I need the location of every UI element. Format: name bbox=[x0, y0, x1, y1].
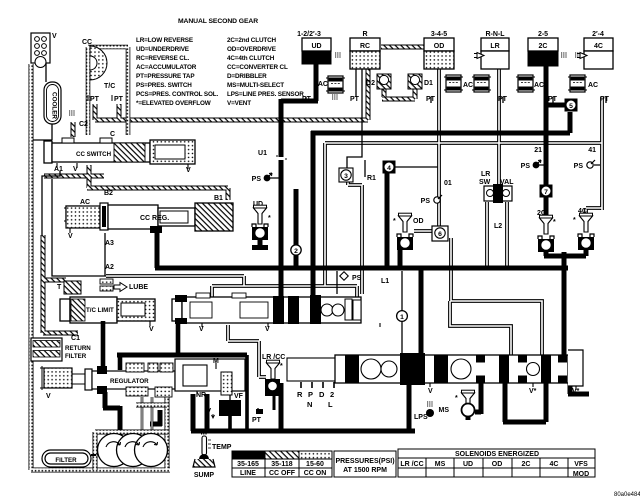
svg-text:*: * bbox=[268, 215, 271, 222]
svg-text:LPS=LINE PRES. SENSOR: LPS=LINE PRES. SENSOR bbox=[227, 91, 304, 98]
svg-text:PRESSURES(PSI): PRESSURES(PSI) bbox=[335, 458, 394, 465]
svg-text:*=ELEVATED OVERFLOW: *=ELEVATED OVERFLOW bbox=[136, 100, 211, 107]
svg-text:4C: 4C bbox=[594, 43, 603, 50]
svg-text:*: * bbox=[553, 219, 556, 226]
svg-text:2: 2 bbox=[294, 248, 298, 255]
svg-text:AC: AC bbox=[463, 82, 473, 89]
svg-text:R: R bbox=[297, 390, 303, 399]
svg-text:UD: UD bbox=[311, 43, 321, 50]
svg-text:VF: VF bbox=[234, 393, 244, 400]
svg-text:V: V bbox=[68, 233, 73, 240]
svg-text:FILTER: FILTER bbox=[55, 457, 77, 464]
svg-text:RETURN: RETURN bbox=[65, 345, 91, 352]
svg-text:VFS: VFS bbox=[574, 461, 588, 468]
svg-text:B2: B2 bbox=[104, 190, 113, 197]
svg-text:D: D bbox=[319, 390, 325, 399]
svg-text:V: V bbox=[149, 326, 154, 333]
svg-text:01: 01 bbox=[444, 180, 452, 187]
svg-text:*: * bbox=[455, 395, 458, 402]
svg-text:CC ON: CC ON bbox=[304, 470, 327, 477]
svg-text:V: V bbox=[52, 33, 57, 40]
svg-text:FILTER: FILTER bbox=[65, 353, 87, 360]
svg-text:CC REG.: CC REG. bbox=[140, 215, 169, 222]
svg-text:L1: L1 bbox=[381, 278, 389, 285]
svg-text:D1: D1 bbox=[424, 80, 433, 87]
svg-text:AC: AC bbox=[318, 81, 328, 88]
svg-text:C2: C2 bbox=[79, 121, 88, 128]
svg-text:V=VENT: V=VENT bbox=[227, 100, 251, 107]
svg-text:SUMP: SUMP bbox=[194, 472, 215, 479]
svg-text:PS: PS bbox=[352, 275, 362, 282]
svg-text:*: * bbox=[280, 363, 283, 370]
svg-text:UD: UD bbox=[463, 461, 473, 468]
svg-text:LINE: LINE bbox=[240, 470, 256, 477]
svg-text:MS: MS bbox=[439, 407, 450, 414]
svg-text:OD: OD bbox=[492, 461, 503, 468]
svg-text:AC: AC bbox=[80, 199, 90, 206]
svg-text:UD=UNDERDRIVE: UD=UNDERDRIVE bbox=[136, 46, 189, 53]
svg-text:N: N bbox=[307, 400, 312, 409]
svg-text:PT: PT bbox=[90, 96, 100, 103]
svg-text:CC OFF: CC OFF bbox=[269, 470, 296, 477]
svg-text:V: V bbox=[186, 167, 191, 174]
svg-text:1: 1 bbox=[400, 314, 404, 321]
svg-text:AC=ACCUMULATOR: AC=ACCUMULATOR bbox=[136, 64, 197, 71]
svg-text:LR /CC: LR /CC bbox=[400, 461, 423, 468]
svg-text:T: T bbox=[57, 284, 62, 291]
svg-text:*: * bbox=[573, 217, 576, 224]
svg-text:PS=PRES. SWITCH: PS=PRES. SWITCH bbox=[136, 82, 192, 89]
svg-text:2C: 2C bbox=[539, 43, 548, 50]
svg-text:L: L bbox=[328, 400, 333, 409]
svg-text:80a0e484: 80a0e484 bbox=[614, 492, 640, 498]
svg-text:PT: PT bbox=[350, 96, 360, 103]
svg-text:PS: PS bbox=[521, 163, 531, 170]
svg-text:2C: 2C bbox=[522, 461, 531, 468]
svg-text:T/C: T/C bbox=[104, 83, 115, 90]
svg-text:A3: A3 bbox=[105, 240, 114, 247]
svg-text:AC: AC bbox=[534, 82, 544, 89]
svg-text:PS: PS bbox=[574, 163, 584, 170]
svg-text:C1: C1 bbox=[71, 335, 80, 342]
svg-text:3: 3 bbox=[344, 173, 348, 180]
svg-text:2: 2 bbox=[330, 390, 334, 399]
svg-text:A2: A2 bbox=[105, 264, 114, 271]
svg-text:4C=4th CLUTCH: 4C=4th CLUTCH bbox=[227, 55, 275, 62]
svg-text:3-4-5: 3-4-5 bbox=[431, 31, 447, 38]
svg-text:PT=PRESSURE TAP: PT=PRESSURE TAP bbox=[136, 73, 195, 80]
svg-text:B1: B1 bbox=[214, 195, 223, 202]
svg-text:V: V bbox=[428, 388, 433, 395]
svg-text:R1: R1 bbox=[367, 175, 376, 182]
svg-text:LR: LR bbox=[490, 43, 499, 50]
svg-text:OD=OVERDRIVE: OD=OVERDRIVE bbox=[227, 46, 276, 53]
svg-text:V: V bbox=[206, 408, 211, 415]
svg-text:TEMP: TEMP bbox=[212, 444, 232, 451]
svg-text:PCS: PCS bbox=[223, 406, 237, 413]
svg-text:CC: CC bbox=[82, 39, 92, 46]
svg-text:RC=REVERSE CL.: RC=REVERSE CL. bbox=[136, 55, 189, 62]
svg-text:SOLENOIDS ENERGIZED: SOLENOIDS ENERGIZED bbox=[455, 451, 539, 458]
svg-text:D=DRIBBLER: D=DRIBBLER bbox=[227, 73, 267, 80]
svg-text:15-60: 15-60 bbox=[306, 461, 324, 468]
svg-text:SW: SW bbox=[479, 179, 491, 186]
svg-text:R: R bbox=[362, 31, 367, 38]
svg-text:T/C LIMIT: T/C LIMIT bbox=[86, 307, 114, 314]
svg-text:PT: PT bbox=[548, 96, 558, 103]
svg-text:PT: PT bbox=[426, 96, 436, 103]
svg-text:4C: 4C bbox=[550, 461, 559, 468]
svg-text:AT 1500 RPM: AT 1500 RPM bbox=[343, 467, 387, 474]
svg-text:MS=MULTI-SELECT: MS=MULTI-SELECT bbox=[227, 82, 284, 89]
svg-text:21: 21 bbox=[534, 147, 542, 154]
svg-text:PT: PT bbox=[114, 96, 124, 103]
svg-text:LUBE: LUBE bbox=[129, 284, 148, 291]
svg-text:7: 7 bbox=[544, 189, 548, 196]
svg-text:V*: V* bbox=[572, 388, 580, 395]
svg-text:V: V bbox=[46, 393, 51, 400]
svg-text:D2: D2 bbox=[366, 80, 375, 87]
svg-text:V: V bbox=[199, 326, 204, 333]
svg-text:35-165: 35-165 bbox=[237, 461, 259, 468]
svg-text:REGULATOR: REGULATOR bbox=[110, 378, 149, 385]
svg-text:MS: MS bbox=[435, 461, 446, 468]
svg-text:OD: OD bbox=[434, 43, 445, 50]
svg-text:MANUAL SECOND GEAR: MANUAL SECOND GEAR bbox=[178, 18, 258, 25]
svg-text:6: 6 bbox=[438, 231, 442, 238]
svg-text:CC SWITCH: CC SWITCH bbox=[76, 151, 112, 158]
svg-text:OD: OD bbox=[413, 218, 424, 225]
svg-text:2-5: 2-5 bbox=[538, 31, 548, 38]
svg-text:PT: PT bbox=[498, 96, 508, 103]
svg-text:4: 4 bbox=[387, 165, 391, 172]
svg-text:PCS=PRES. CONTROL SOL.: PCS=PRES. CONTROL SOL. bbox=[136, 91, 218, 98]
svg-text:PT: PT bbox=[302, 96, 312, 103]
svg-text:2C=2nd CLUTCH: 2C=2nd CLUTCH bbox=[227, 37, 277, 44]
svg-text:L2: L2 bbox=[494, 223, 502, 230]
svg-text:U1: U1 bbox=[258, 150, 267, 157]
svg-text:RC: RC bbox=[360, 43, 370, 50]
svg-text:PT: PT bbox=[600, 96, 610, 103]
svg-text:V: V bbox=[265, 326, 270, 333]
svg-text:5: 5 bbox=[569, 103, 573, 110]
svg-text:1-2/2′-3: 1-2/2′-3 bbox=[297, 31, 321, 38]
svg-text:LPS: LPS bbox=[414, 414, 428, 421]
svg-text:COOLER: COOLER bbox=[51, 92, 58, 119]
svg-text:V*: V* bbox=[529, 388, 537, 395]
svg-text:2′-4: 2′-4 bbox=[592, 31, 604, 38]
svg-text:*: * bbox=[393, 218, 396, 225]
svg-text:MOD: MOD bbox=[573, 471, 589, 478]
svg-text:35-118: 35-118 bbox=[271, 461, 293, 468]
svg-text:PS: PS bbox=[252, 176, 262, 183]
svg-text:CC=CONVERTER CL: CC=CONVERTER CL bbox=[227, 64, 288, 71]
svg-text:A1: A1 bbox=[54, 166, 63, 173]
svg-text:R-N-L: R-N-L bbox=[485, 31, 505, 38]
svg-text:LR: LR bbox=[481, 171, 490, 178]
svg-text:V: V bbox=[73, 166, 78, 173]
svg-text:PS: PS bbox=[421, 198, 431, 205]
svg-text:C: C bbox=[110, 131, 115, 138]
svg-text:41: 41 bbox=[588, 147, 596, 154]
svg-text:AC: AC bbox=[588, 82, 598, 89]
svg-text:P: P bbox=[308, 390, 313, 399]
svg-text:LR=LOW REVERSE: LR=LOW REVERSE bbox=[136, 37, 193, 44]
svg-text:PT: PT bbox=[252, 417, 262, 424]
